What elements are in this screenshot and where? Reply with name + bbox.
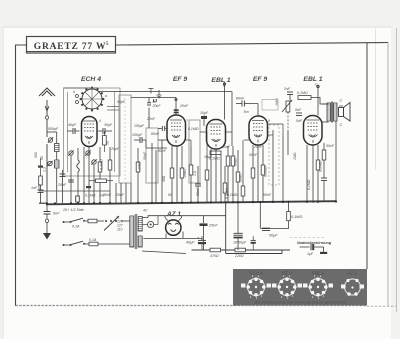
svg-text:5nF: 5nF — [295, 108, 302, 112]
wire AZ1 heater circuit — [142, 216, 204, 254]
wire IF can 1 secondary drops — [63, 170, 132, 203]
svg-text:0,1MΩ: 0,1MΩ — [85, 194, 96, 198]
capacitor grid cap above EF9 first — [174, 109, 179, 113]
wire output transformer connections — [322, 104, 337, 202]
trimmer wave band — [47, 161, 52, 166]
tube ECH4 envelope — [73, 117, 101, 147]
trimmer capacitor antenna — [48, 127, 59, 143]
svg-text:1,3: 1,3 — [43, 167, 47, 172]
wire screen feed mid horizontals — [146, 112, 288, 160]
svg-text:0,1MΩ: 0,1MΩ — [188, 127, 199, 131]
svg-text:GRAETZ 77 W: GRAETZ 77 W — [34, 42, 107, 52]
resistor horizontal under ECH4 — [89, 179, 113, 183]
electrolytic small right — [251, 236, 256, 250]
capacitor block left column — [38, 158, 43, 176]
resistor 2MOhm — [183, 146, 193, 203]
ground symbol needle shield — [320, 247, 327, 254]
svg-text:40μF: 40μF — [186, 241, 195, 245]
svg-text:10μF: 10μF — [200, 111, 209, 115]
svg-text:0,1A: 0,1A — [72, 225, 80, 229]
svg-text:100pF: 100pF — [132, 133, 143, 137]
svg-text:0,1A: 0,1A — [89, 238, 97, 242]
svg-text:25nF: 25nF — [57, 183, 67, 187]
svg-text:a: a — [105, 94, 107, 98]
wire oscillator top link — [64, 88, 120, 110]
wire EF9 grid link — [152, 140, 167, 203]
EBL1 second top cap wire — [317, 85, 319, 116]
capacitor 2nF top — [283, 87, 293, 100]
svg-text:25nF: 25nF — [253, 145, 263, 149]
svg-text:1MΩ: 1MΩ — [293, 152, 297, 160]
svg-text:1μF: 1μF — [307, 252, 314, 256]
EF9 first cathode components — [162, 146, 184, 203]
svg-text:2MΩ: 2MΩ — [183, 169, 187, 178]
capacitor 80nF above EF9 second — [236, 97, 250, 107]
EBL1 second pin drops — [307, 145, 318, 203]
capacitor 20nF at IF can 2 top — [147, 103, 161, 108]
svg-text:470Ω: 470Ω — [210, 254, 219, 258]
resistor under EF9 second — [251, 165, 267, 203]
svg-text:L l: L l — [153, 99, 157, 103]
tube EBL1 first envelope — [203, 115, 226, 149]
svg-text:20nF: 20nF — [179, 104, 189, 108]
capacitor 3nF to ground — [31, 185, 44, 203]
svg-text:C: C — [340, 99, 343, 103]
mains switch pole 1 — [63, 218, 86, 228]
svg-text:500: 500 — [34, 152, 38, 158]
svg-text:Ton: Ton — [243, 110, 249, 114]
svg-text:EF 9: EF 9 — [253, 76, 268, 83]
capacitor block under ECH4 — [85, 186, 106, 198]
socket diagram ECH4 — [241, 276, 271, 299]
svg-text:80nF: 80nF — [236, 97, 245, 101]
ground bus main — [46, 201, 336, 204]
heater return line bottom — [192, 202, 290, 254]
rotated labels left column — [34, 152, 47, 172]
rectifier tube AZ1 envelope — [165, 218, 182, 236]
resistor under EBL1 second — [316, 143, 326, 203]
tube label EBL 1 (second) — [303, 76, 322, 87]
voltage selector — [104, 216, 130, 232]
svg-text:EBL 1: EBL 1 — [211, 77, 230, 84]
svg-text:50pF: 50pF — [117, 100, 126, 104]
svg-text:20nF: 20nF — [152, 104, 162, 108]
svg-text:1MΩ: 1MΩ — [138, 162, 142, 170]
svg-text:500pF: 500pF — [48, 127, 59, 131]
svg-text:EBL 1: EBL 1 — [303, 76, 322, 83]
tone capacitor 5nF — [295, 108, 302, 116]
wire antenna lead-in — [46, 119, 48, 203]
svg-text:4: 4 — [99, 119, 101, 123]
resistor 0,1MOhm top right — [297, 91, 311, 100]
tuning gang (gear) of ECH4 oscillator — [73, 87, 107, 112]
capacitor 100pF at EF9 grid — [132, 133, 146, 143]
antenna coil primary — [47, 132, 59, 160]
svg-text:18·50μF: 18·50μF — [233, 241, 247, 245]
IF transformer can 2 — [146, 128, 158, 183]
svg-text:0,1MΩ: 0,1MΩ — [100, 159, 104, 170]
svg-text:50nF: 50nF — [143, 151, 147, 160]
svg-text:AZ 1: AZ 1 — [166, 211, 181, 218]
svg-text:1MΩ: 1MΩ — [239, 174, 243, 182]
svg-text:0,3MΩ: 0,3MΩ — [264, 166, 268, 177]
svg-text:80nF: 80nF — [158, 149, 167, 153]
svg-text:2lt + 1/2 Stde: 2lt + 1/2 Stde — [62, 208, 84, 212]
wire bus left end to ground cap — [39, 202, 46, 204]
svg-text:2nF: 2nF — [98, 194, 106, 198]
antenna coil secondary — [55, 160, 60, 203]
svg-text:b: b — [73, 90, 75, 94]
output transformer — [327, 99, 343, 128]
label 25nF pair above bus — [102, 193, 125, 197]
svg-text:ECH 4: ECH 4 — [249, 271, 263, 276]
tube socket chart box (dark) — [233, 269, 367, 306]
resistor 220 Ohm heater — [234, 248, 246, 258]
svg-text:EF 9: EF 9 — [282, 271, 292, 276]
svg-text:0,1MΩ: 0,1MΩ — [297, 91, 308, 95]
svg-text:300: 300 — [162, 176, 166, 182]
wire tone network to output transformer — [250, 98, 326, 117]
tube label EF 9 (first) — [173, 76, 188, 83]
EBL1 first pin drops — [211, 146, 228, 203]
tube EF9 second envelope — [249, 116, 270, 145]
mains transformer — [130, 214, 143, 249]
svg-text:9: 9 — [268, 119, 270, 123]
capacitor small at left column — [60, 174, 66, 177]
electrolytic 10uF near EF9 — [200, 111, 209, 126]
resistor under ECH4 screen — [108, 147, 112, 203]
wire HV to AZ1 plates — [142, 216, 226, 218]
svg-text:0,2MΩ: 0,2MΩ — [227, 193, 238, 197]
svg-text:1,8: 1,8 — [193, 171, 197, 176]
capacitor 25nF AZ1 — [200, 223, 219, 250]
svg-text:30pF: 30pF — [104, 123, 113, 127]
resistor ECH4 grid leak — [98, 159, 103, 203]
svg-text:AZ 1: AZ 1 — [346, 271, 357, 276]
wire between EF9 second and EBL1 second — [273, 130, 288, 203]
capacitor 50nF below EBL1 second right — [321, 175, 327, 202]
resistor 50 kOhm mid — [205, 155, 209, 203]
svg-text:0,1MΩ: 0,1MΩ — [307, 179, 311, 190]
svg-text:150pF: 150pF — [134, 124, 145, 128]
padder capacitors below box — [57, 159, 97, 187]
loudspeaker — [339, 103, 351, 122]
tube label EF 9 (second) — [253, 76, 268, 83]
antenna — [39, 88, 55, 119]
AVC line left — [39, 184, 110, 191]
label wave winding note — [62, 208, 148, 213]
fuse Si2 — [85, 242, 130, 246]
svg-text:Die Röhren sind von unten gese: Die Röhren sind von unten gesehen gezeic… — [254, 301, 346, 305]
svg-text:1nF: 1nF — [31, 186, 38, 190]
svg-text:Nadelabschirmung: Nadelabschirmung — [297, 241, 332, 245]
svg-text:EF 9: EF 9 — [173, 76, 188, 83]
resistor antenna bleeder — [39, 176, 43, 185]
svg-text:0,1MΩ: 0,1MΩ — [319, 161, 323, 172]
resistor 0,1MOhm horizontal below EBL1 first — [209, 151, 221, 161]
capacitor 40pF left of ECH4 — [67, 123, 80, 134]
socket diagram EBL1 — [303, 276, 333, 299]
extra value labels scatter — [146, 117, 311, 197]
socket diagram EF9 — [272, 276, 302, 299]
svg-text:20nF: 20nF — [146, 117, 156, 121]
IF transformer can 1 — [119, 95, 131, 183]
electrolytic 18+50uF — [233, 202, 247, 250]
svg-text:ECH 4: ECH 4 — [81, 76, 101, 83]
svg-text:220Ω: 220Ω — [234, 254, 244, 258]
wire EF9 first top feed — [131, 98, 177, 129]
ground symbol main earth — [43, 233, 51, 240]
svg-text:50nF: 50nF — [222, 145, 231, 149]
svg-text:110: 110 — [117, 228, 123, 232]
wire EBL1 first top cap — [223, 82, 225, 120]
resistor column between EBL1 and EF9 second — [226, 146, 245, 203]
tube label EBL 1 (first) — [211, 77, 230, 88]
capacitor IF coupling at EF9 grid left — [158, 126, 167, 131]
mains switch pole 2 — [63, 238, 97, 246]
Nadelabschirmung label — [297, 241, 332, 245]
resistor under IF can 1 — [136, 148, 141, 203]
svg-text:50: 50 — [106, 141, 110, 145]
svg-text:20pF: 20pF — [110, 147, 120, 151]
dashed shield around volume pot — [269, 125, 279, 185]
wire top feed line y=91.5 — [98, 92, 232, 147]
capacitor 30pF right of ECH4 — [98, 123, 113, 134]
capacitor 5nF bus to ground — [44, 204, 61, 234]
schematic frame border — [16, 43, 397, 307]
svg-text:2nF: 2nF — [283, 87, 291, 91]
IF transformer can 3 (second IF) — [189, 120, 200, 183]
resistor 470 Ohm heater — [210, 248, 221, 258]
rectifier tube AZ1 label — [166, 211, 181, 218]
resistor 0,5MOhm mid — [223, 166, 229, 203]
resistor oscillator grid leak — [103, 131, 110, 152]
capacitor 50uF right — [260, 202, 288, 238]
oscillator coil shield box — [64, 88, 121, 176]
tube EBL1 second envelope — [304, 116, 323, 146]
resistor 600 Ohm above bus — [76, 196, 80, 202]
tube label ECH 4 — [81, 76, 101, 83]
fuse Si1 — [85, 219, 104, 223]
svg-text:EBL 1: EBL 1 — [312, 271, 325, 276]
svg-text:60: 60 — [168, 193, 172, 197]
svg-text:4V: 4V — [143, 209, 148, 213]
svg-text:C: C — [340, 123, 343, 127]
dashed trace needle shield — [290, 237, 326, 239]
antenna/earth symbols small (Ll) — [149, 89, 162, 104]
svg-text:10μF: 10μF — [204, 155, 213, 159]
pilot lamp — [142, 216, 158, 228]
svg-text:80nF: 80nF — [151, 132, 160, 136]
misc small labels upper area — [110, 100, 335, 176]
svg-text:5nF: 5nF — [53, 212, 60, 216]
svg-text:50nF: 50nF — [263, 193, 272, 197]
sheet edge lines right — [376, 28, 397, 312]
svg-text:0,1MΩ: 0,1MΩ — [291, 215, 302, 219]
junction dots on ground bus — [46, 200, 337, 204]
capacitor 50nF mid — [195, 166, 201, 203]
svg-text:25nF: 25nF — [115, 193, 125, 197]
svg-text:1MΩ: 1MΩ — [234, 158, 238, 166]
grid stopper box above EF9 second — [262, 100, 278, 111]
socket diagram AZ1 — [341, 279, 364, 296]
volume potentiometer — [275, 98, 292, 112]
EF9 second pin drops — [253, 145, 263, 203]
svg-text:50nF: 50nF — [196, 187, 200, 196]
svg-text:50nF: 50nF — [326, 144, 335, 148]
tube EF9 first envelope — [167, 115, 188, 146]
svg-text:50nF: 50nF — [249, 153, 258, 157]
wire ECH4 cathode drops — [71, 147, 100, 203]
oscillator trimmers inside box — [68, 148, 90, 203]
svg-text:40pF: 40pF — [68, 123, 77, 127]
title box GRAETZ 77 W — [27, 37, 116, 54]
resistor 0,1MOhm B+ dropper — [287, 202, 303, 229]
svg-text:7: 7 — [186, 119, 188, 123]
svg-text:50μF: 50μF — [269, 234, 278, 238]
svg-text:25nF: 25nF — [208, 224, 218, 228]
electrolytic 40uF — [186, 235, 206, 250]
capacitor 1uF needle shield — [300, 244, 324, 256]
svg-text:5nF: 5nF — [296, 119, 303, 123]
